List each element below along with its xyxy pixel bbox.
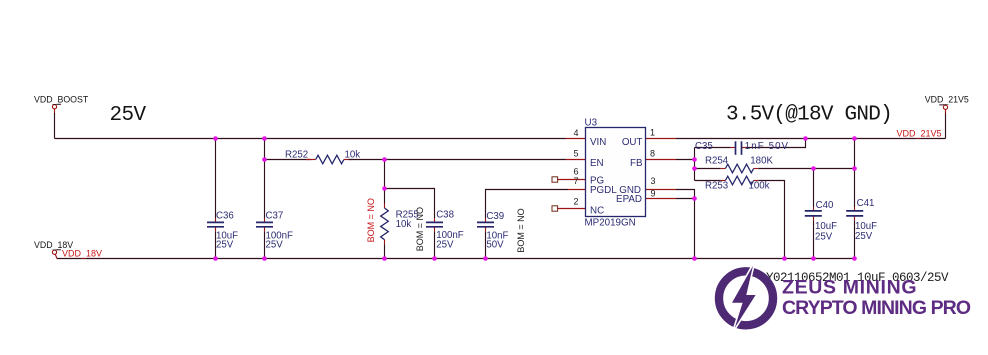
junction R254 row C41 [852,166,857,171]
svg-text:4: 4 [573,128,578,138]
svg-text:EPAD: EPAD [616,194,642,205]
pin stub C36 top [215,219,217,223]
pin 6 PG no-connect square [552,177,558,182]
wire C35 right to rail [746,139,806,148]
junction bus C41 [852,256,857,261]
svg-text:PGDL: PGDL [590,185,617,196]
junction R255 C38 tap [382,186,387,191]
svg-text:7: 7 [573,176,578,186]
wire C36 to bus [215,231,217,258]
svg-text:OUT: OUT [622,137,643,148]
logo ring [719,271,773,325]
op-amp U1 regulator chip U3 [585,117,646,228]
junction FB node upper [692,157,697,162]
svg-text:BOM = NO: BOM = NO [516,208,526,252]
wire GND to vertical [676,190,695,259]
svg-text:C39: C39 [486,211,504,222]
bottom bus wire VDD_18V [57,258,855,260]
svg-text:C41: C41 [857,198,875,209]
pin stub C36 bottom [215,227,217,232]
svg-text:C38: C38 [436,209,454,220]
junction bus C40 [811,256,816,261]
pin stub R255 top [384,204,386,209]
wire R255 to bus [384,244,386,258]
svg-text:ZEUS MINING: ZEUS MINING [782,277,917,299]
pin stub C37 bottom [264,227,266,232]
svg-text:VDD_BOOST: VDD_BOOST [34,94,89,104]
resistor R255 [381,208,419,240]
junction bus C38 [432,256,437,261]
junction bus C37 [262,256,267,261]
wire OUT rail to VDD_21V5 [676,138,946,140]
junction bus C39 [483,256,488,261]
svg-text:25V: 25V [216,240,234,251]
svg-text:NC: NC [590,205,604,216]
wire C37 top [264,139,266,219]
capacitor C41 [846,198,877,242]
junction bus C36 [213,256,218,261]
pin 5 EN stub [566,159,586,161]
wire R254 right to C41 rail [758,168,854,170]
svg-text:C35: C35 [695,141,713,152]
pin stub C41 top [854,207,856,211]
wire R255 node to C38 [385,189,435,219]
svg-text:3: 3 [651,176,656,186]
svg-text:8: 8 [650,148,655,158]
capacitor C35 [695,141,789,155]
resistor R254 [705,155,773,173]
junction bus R253 [782,256,787,261]
svg-text:180K: 180K [750,155,773,166]
svg-text:C40: C40 [816,200,834,211]
wire C37 to bus [264,231,266,258]
pin stub C41 bottom [854,216,856,221]
svg-text:25V: 25V [266,240,284,251]
svg-text:25V: 25V [815,231,833,242]
pin 7 PGDL stub [568,189,586,191]
pin stub R252 left [306,159,316,161]
svg-text:VDD_21V5: VDD_21V5 [925,95,969,105]
wire C40 to bus [813,220,815,258]
junction bus GND [692,256,697,261]
svg-text:FB: FB [630,158,643,169]
power port VDD_21V5 [939,105,947,114]
svg-text:3.5V(@18V GND): 3.5V(@18V GND) [726,104,892,127]
pin stub C35 right [742,147,746,149]
svg-text:25V: 25V [855,231,873,242]
power port VDD_BOOST [52,104,61,113]
junction top rail C37 [262,136,267,141]
wire FB node vertical [694,148,696,181]
pin stub C37 top [264,219,266,223]
svg-text:2: 2 [573,197,578,207]
svg-text:C36: C36 [216,210,234,221]
pin stub C40 bottom [813,216,815,221]
wire C38 to bus [434,231,436,258]
svg-text:100k: 100k [749,181,770,192]
svg-text:CRYPTO MINING PRO: CRYPTO MINING PRO [782,297,971,319]
pin 6 PG stub [558,179,586,181]
junction top rail C36 [213,136,218,141]
wire C41 to bus [854,220,856,258]
pin stub R254 left [721,168,726,170]
pin stub C39 top [485,219,487,223]
wire VDD_21V5 vertical [945,113,947,139]
wire C35 left [695,147,731,149]
logo lightning bolt [732,266,756,328]
svg-text:EN: EN [590,158,604,169]
pin stub R254 right [754,168,759,170]
svg-text:VIN: VIN [590,137,606,148]
svg-text:1: 1 [650,128,655,138]
capacitor C40 [805,200,837,242]
capacitor C36 [207,210,238,250]
wire R252 to EN [349,159,566,161]
wire R252 left [265,159,312,161]
svg-text:R252: R252 [285,150,308,161]
power port VDD_18V [52,250,60,259]
svg-text:1nF 50V: 1nF 50V [745,141,789,152]
junction bus R255 [382,256,387,261]
junction R254 row C40 [811,166,816,171]
wire C36 top [215,139,217,219]
svg-text:10k: 10k [396,219,412,230]
wire PGDL to C39 [486,190,569,219]
resistor R252 [285,150,360,164]
pin stub C40 top [813,207,815,211]
svg-text:BOM = NO: BOM = NO [366,198,376,242]
svg-text:U3: U3 [585,117,598,128]
wire C40 top [813,169,815,208]
pin stub C39 bottom [485,227,487,232]
pin 2 NC no-connect square [552,206,558,211]
pin stub R253 right [754,180,759,182]
svg-text:VDD_21V5: VDD_21V5 [897,129,942,139]
junction top rail C41 [852,136,857,141]
capacitor C39 [477,211,509,250]
svg-text:BOM = NO: BOM = NO [415,207,425,251]
junction R252 row right [382,157,387,162]
wire FB to node [676,159,695,161]
wire VDD_BOOST vertical [54,113,56,139]
pin 2 NC stub [558,208,586,210]
junction top rail C35 [803,136,808,141]
svg-text:10k: 10k [345,150,361,161]
svg-text:9: 9 [651,189,656,199]
pin 3 GND stub [646,189,677,191]
pin stub C38 bottom [434,227,436,232]
svg-text:R253: R253 [705,181,728,192]
svg-text:C37: C37 [266,210,284,221]
pin stub R255 bottom [384,240,386,245]
wire EPAD to node [676,198,695,200]
pin stub C35 left [731,147,735,149]
resistor R253 [705,176,770,191]
pin stub C38 top [434,219,436,223]
svg-text:50V: 50V [486,239,504,250]
svg-text:25V: 25V [110,104,147,127]
junction EPAD node [692,196,697,201]
pin 1 OUT stub [646,138,677,140]
wire R253 right down to bus [758,181,784,259]
wire C39 to bus [485,231,487,258]
pin 4 VIN stub [566,138,586,140]
junction FB node R254 [692,166,697,171]
capacitor C37 [256,210,293,250]
wire top rail to VIN [55,138,566,140]
svg-text:R254: R254 [705,155,729,166]
capacitor C38 [426,209,464,250]
junction R252 row left [262,157,267,162]
wire R254 left [695,168,721,170]
svg-text:5: 5 [573,148,578,158]
svg-text:VDD_18V: VDD_18V [62,248,102,258]
pin stub R252 right [344,159,353,161]
pin stub R253 left [721,180,726,182]
wire C41 top [854,139,856,208]
svg-text:25V: 25V [436,239,454,250]
pin 9 EPAD stub [646,198,677,200]
svg-text:MP2019GN: MP2019GN [585,217,636,228]
pin 8 FB stub [646,159,677,161]
wire R253 left [695,180,721,182]
wire R255 top [384,160,386,204]
